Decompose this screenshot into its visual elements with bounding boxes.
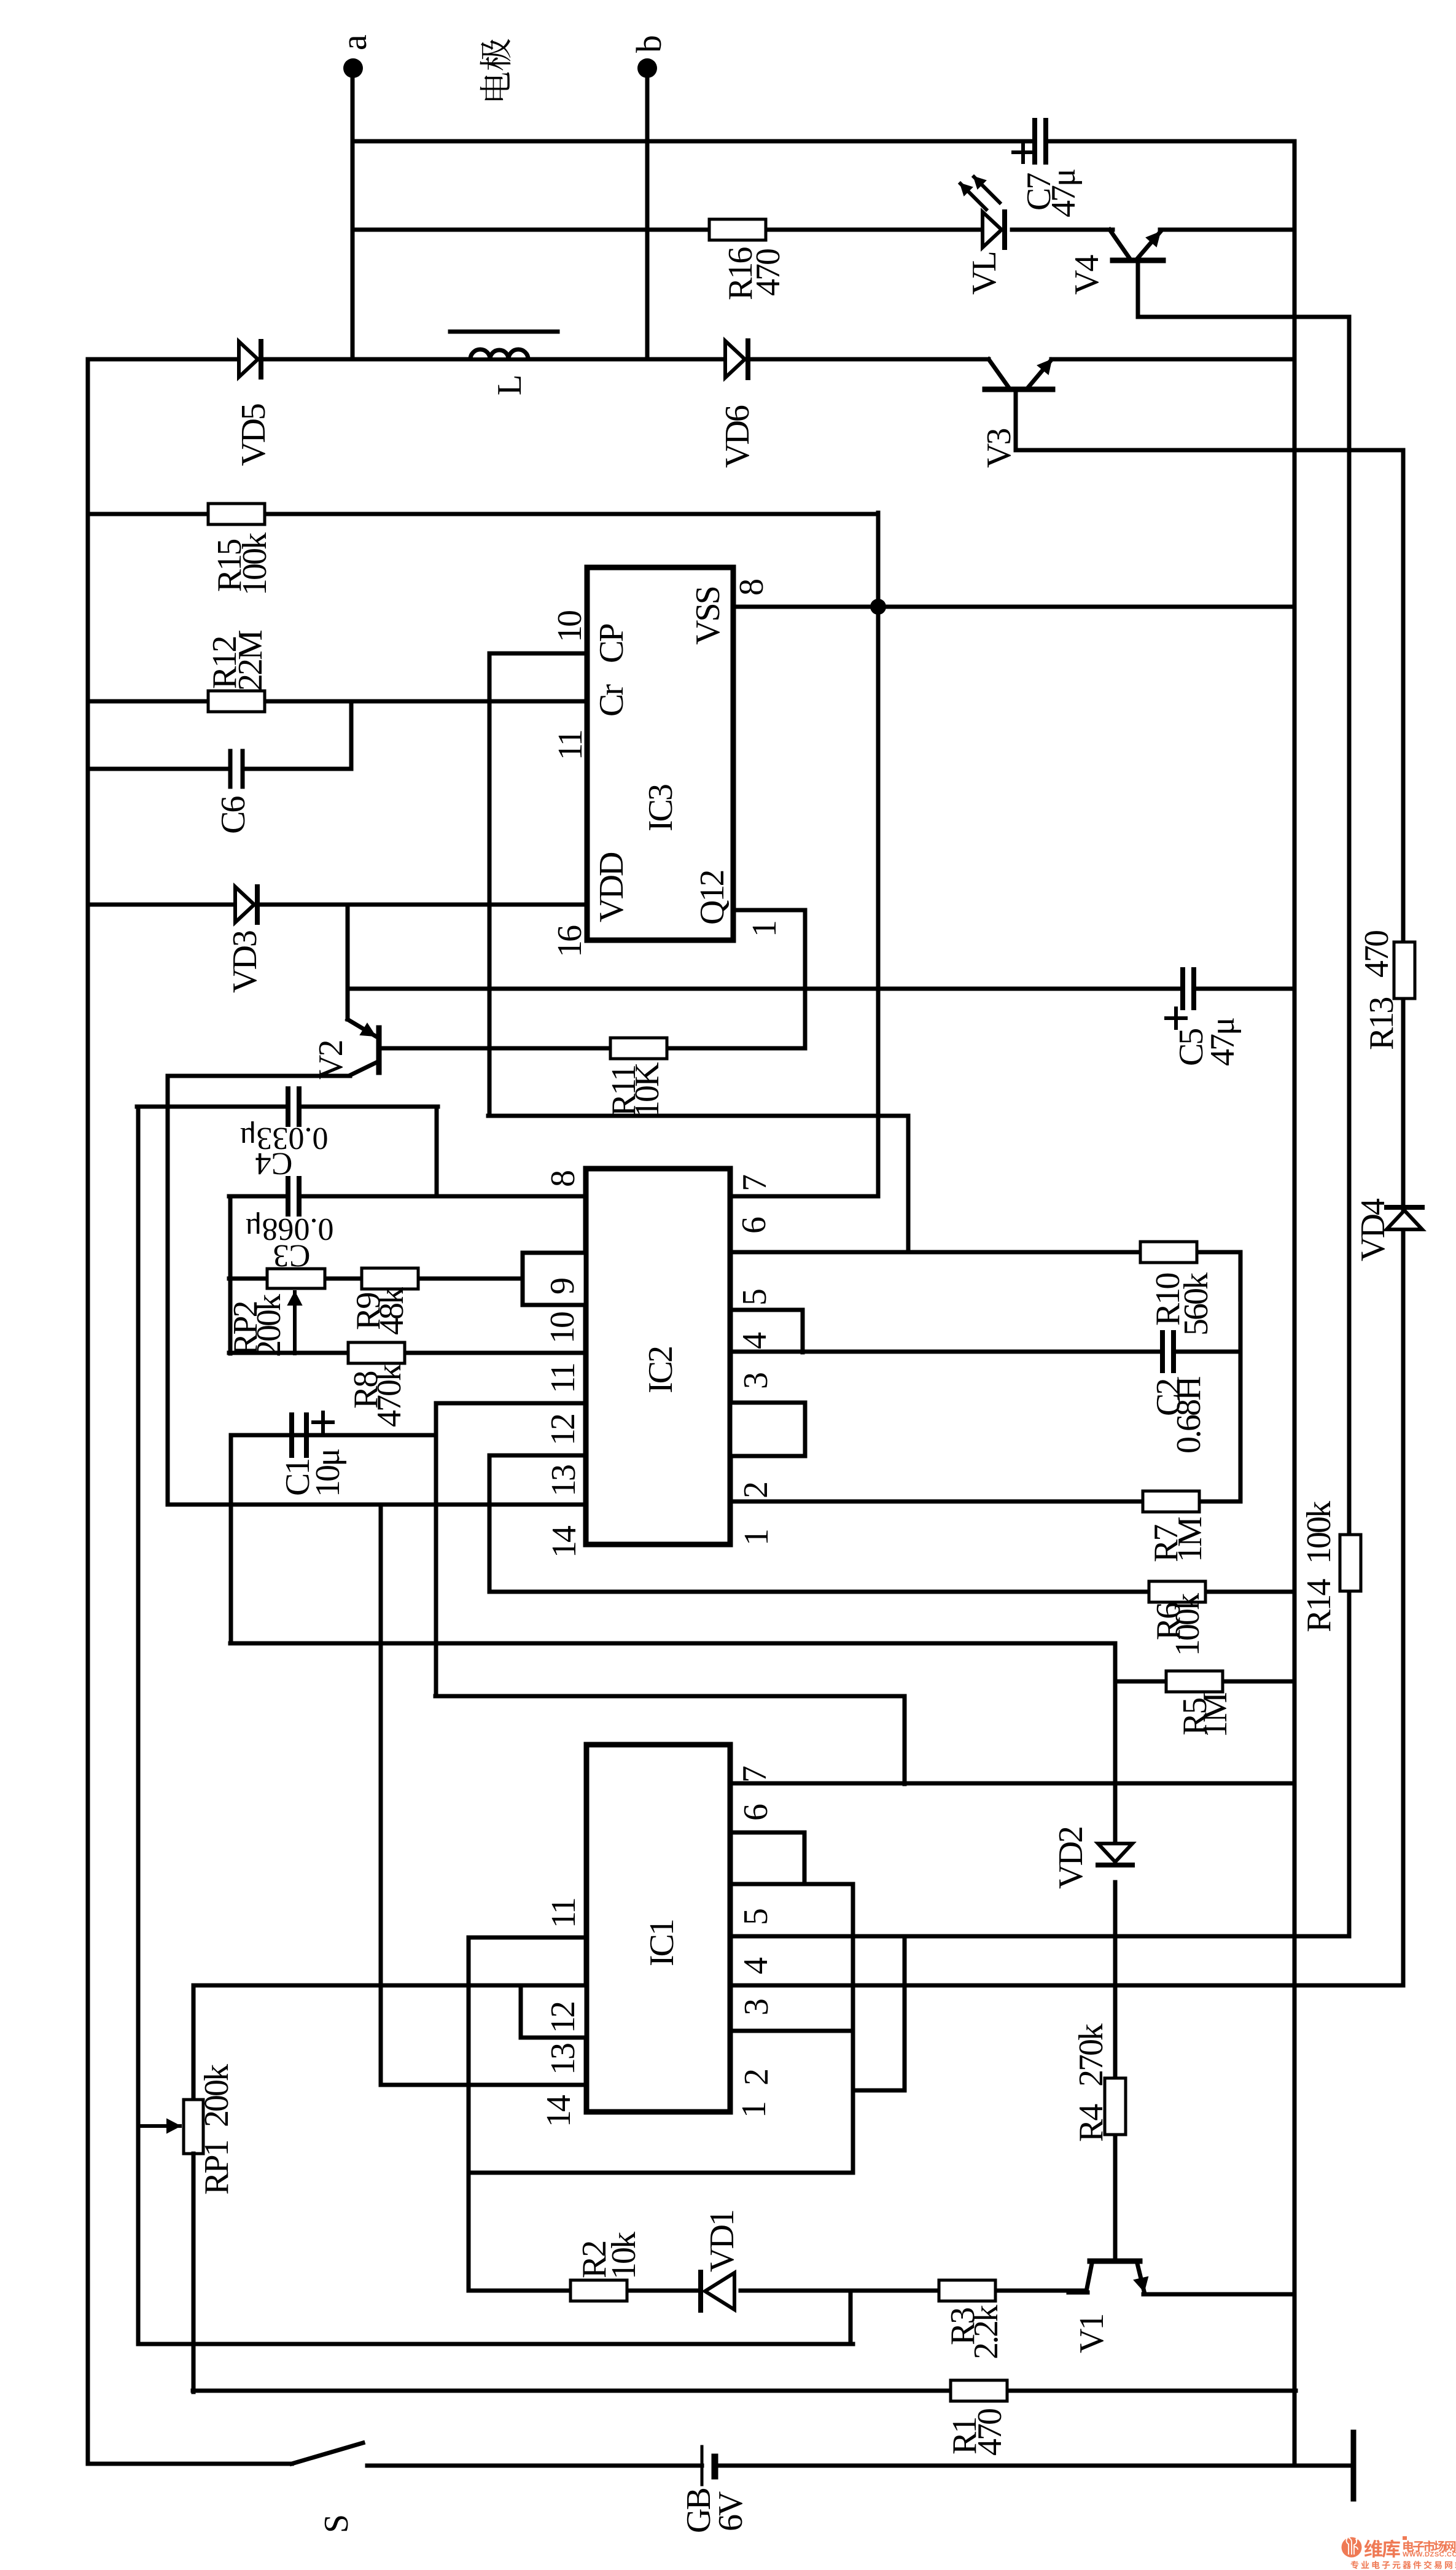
svg-text:11: 11	[551, 731, 590, 760]
svg-text:5: 5	[736, 1290, 774, 1306]
svg-text:10: 10	[543, 1312, 582, 1344]
svg-text:22M: 22M	[232, 630, 270, 691]
svg-text:200k: 200k	[198, 2064, 236, 2127]
svg-text:10μ: 10μ	[309, 1449, 347, 1497]
svg-text:VD2: VD2	[1052, 1828, 1090, 1889]
svg-text:V4: V4	[1068, 255, 1106, 295]
svg-text:RP1: RP1	[198, 2141, 236, 2195]
svg-text:Cr: Cr	[593, 684, 631, 717]
svg-text:100k: 100k	[1300, 1501, 1338, 1564]
svg-text:VD5: VD5	[235, 404, 273, 466]
svg-text:VD4: VD4	[1354, 1198, 1392, 1261]
svg-text:WWW.DZSC.COM: WWW.DZSC.COM	[1403, 2551, 1456, 2558]
svg-text:0.68H: 0.68H	[1170, 1377, 1208, 1454]
svg-text:13: 13	[544, 2044, 582, 2075]
svg-text:3: 3	[737, 1373, 775, 1389]
svg-text:V1: V1	[1073, 2315, 1111, 2353]
svg-text:13: 13	[545, 1465, 583, 1497]
svg-text:C6: C6	[214, 796, 252, 834]
svg-text:VD3: VD3	[226, 931, 264, 993]
svg-text:4: 4	[737, 1957, 775, 1974]
svg-text:560k: 560k	[1177, 1272, 1215, 1336]
svg-text:470k: 470k	[370, 1364, 408, 1427]
svg-text:2: 2	[737, 1483, 775, 1498]
svg-text:12: 12	[544, 2003, 582, 2033]
svg-text:100k: 100k	[1169, 1593, 1207, 1656]
svg-text:7: 7	[736, 1766, 774, 1783]
svg-text:b: b	[629, 36, 669, 53]
svg-text:C4: C4	[255, 1146, 293, 1181]
svg-text:R13: R13	[1363, 998, 1401, 1050]
svg-text:S: S	[317, 2516, 356, 2533]
svg-text:16: 16	[551, 925, 589, 957]
svg-text:48k: 48k	[373, 1287, 411, 1335]
svg-text:10: 10	[551, 611, 589, 642]
svg-text:VD6: VD6	[718, 405, 757, 468]
svg-text:a: a	[334, 35, 374, 50]
svg-text:CP: CP	[593, 625, 631, 663]
svg-text:14: 14	[545, 1525, 583, 1558]
svg-text:R14: R14	[1300, 1579, 1338, 1632]
svg-text:1: 1	[735, 2103, 773, 2118]
svg-text:100k: 100k	[236, 532, 274, 596]
svg-text:VDD: VDD	[593, 852, 631, 922]
svg-text:10k: 10k	[605, 2232, 643, 2280]
svg-text:1M: 1M	[1171, 1517, 1209, 1562]
svg-text:470: 470	[971, 2409, 1009, 2456]
svg-text:6: 6	[735, 1217, 773, 1234]
svg-text:IC1: IC1	[643, 1920, 681, 1966]
svg-text:VL: VL	[965, 252, 1003, 295]
svg-text:11: 11	[545, 1899, 583, 1928]
svg-text:270k: 270k	[1072, 2023, 1110, 2087]
svg-text:12: 12	[544, 1415, 582, 1446]
svg-text:3: 3	[738, 2000, 776, 2015]
svg-text:2: 2	[738, 2070, 776, 2085]
svg-text:8: 8	[733, 580, 771, 596]
svg-text:7: 7	[736, 1175, 774, 1191]
svg-text:V2: V2	[312, 1042, 350, 1080]
svg-text:1: 1	[738, 1530, 776, 1546]
svg-text:200k: 200k	[250, 1294, 288, 1357]
svg-text:47μ: 47μ	[1204, 1018, 1242, 1066]
svg-text:470: 470	[1358, 931, 1396, 978]
svg-text:4: 4	[736, 1332, 774, 1349]
svg-text:VSS: VSS	[689, 587, 727, 645]
svg-text:1M: 1M	[1196, 1692, 1234, 1738]
svg-text:IC2: IC2	[642, 1347, 680, 1393]
svg-text:8: 8	[544, 1171, 582, 1187]
svg-text:11: 11	[544, 1364, 582, 1393]
svg-text:R4: R4	[1072, 2104, 1110, 2142]
svg-text:VD1: VD1	[703, 2211, 741, 2272]
svg-text:470: 470	[749, 249, 787, 296]
svg-text:10K: 10K	[628, 1062, 666, 1118]
svg-text:5: 5	[737, 1909, 775, 1925]
svg-text:2.2k: 2.2k	[967, 2305, 1005, 2359]
svg-text:47μ: 47μ	[1045, 169, 1083, 217]
svg-text:9: 9	[543, 1279, 582, 1295]
svg-text:L: L	[491, 376, 529, 395]
svg-text:6V: 6V	[712, 2491, 750, 2531]
svg-text:V3: V3	[980, 429, 1018, 468]
svg-text:C3: C3	[273, 1238, 311, 1273]
svg-text:Q12: Q12	[693, 871, 731, 925]
svg-text:14: 14	[540, 2095, 578, 2127]
svg-text:IC3: IC3	[642, 785, 680, 831]
svg-text:1: 1	[746, 922, 784, 937]
svg-text:6: 6	[737, 1804, 775, 1821]
